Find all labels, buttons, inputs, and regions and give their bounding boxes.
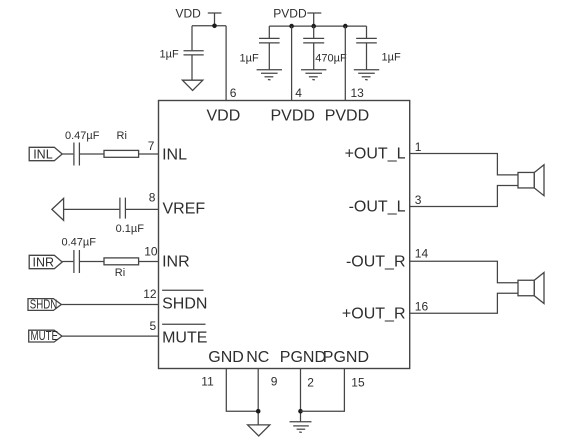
power flag VDD [176, 7, 222, 26]
pin label SHDN (pin 12) with overline [162, 290, 207, 312]
net tag SHDN [28, 298, 61, 312]
capacitor C5 0.47uF (INL input) [74, 143, 80, 166]
svg-text:MUTE: MUTE [162, 329, 207, 346]
capacitor C1 1uF (VDD decoupling) [184, 26, 204, 80]
resistor R1 Ri (INL) [104, 150, 139, 157]
svg-text:-OUT_L: -OUT_L [349, 199, 406, 216]
capacitor C7 0.47uF (INR input) [74, 250, 80, 273]
net tag MUTE [29, 329, 62, 343]
svg-text:VDD: VDD [207, 107, 241, 124]
wire pin 2 (PGND) to ground [300, 369, 302, 422]
wire INR tag to C7 [62, 261, 73, 263]
wire pin 3 (-OUT_L) to speaker LS1 [410, 186, 518, 207]
speaker LS1 (left channel) [518, 165, 544, 196]
pin label VREF (pin 8) [163, 200, 206, 217]
pin label PVDD (pin 13) [325, 107, 369, 124]
pin label +OUT_L (pin 1) [345, 146, 406, 163]
svg-text:0.47µF: 0.47µF [62, 236, 97, 248]
svg-text:SHDN: SHDN [162, 295, 207, 312]
svg-text:6: 6 [230, 86, 237, 100]
svg-text:7: 7 [148, 139, 155, 153]
pin label PGND (pin 2) [280, 349, 326, 366]
pin number 1 [415, 140, 422, 154]
ground (triangle) for C1 [182, 80, 202, 90]
svg-text:1µF: 1µF [382, 52, 401, 64]
net tag INR [29, 255, 62, 269]
svg-text:11: 11 [201, 374, 214, 388]
value label 0.47uF (C7) [62, 236, 97, 248]
pin label -OUT_R (pin 14) [346, 253, 406, 270]
pin number 5 [150, 319, 157, 333]
pin number 3 [415, 193, 422, 207]
pin number 15 [351, 375, 365, 389]
ground (earth) for C2 [257, 70, 282, 80]
svg-text:13: 13 [351, 86, 365, 100]
svg-text:SHDN: SHDN [30, 298, 58, 312]
svg-text:PVDD: PVDD [273, 7, 307, 21]
svg-text:NC: NC [246, 349, 269, 366]
wire pin 13 to PVDD bus [344, 26, 346, 100]
svg-text:INL: INL [162, 146, 187, 163]
node VREF arrow [52, 198, 64, 220]
svg-text:1µF: 1µF [160, 48, 179, 60]
pin number 12 [143, 287, 157, 301]
svg-text:4: 4 [295, 86, 302, 100]
value label 0.47uF (C5) [65, 130, 100, 142]
ground (earth) for C3 [301, 70, 326, 80]
wire C5 to R1 [80, 153, 104, 155]
pin number 14 [415, 247, 429, 261]
resistor R2 Ri (INR) [104, 258, 139, 265]
pin label VDD (pin 6) [207, 107, 241, 124]
svg-text:VREF: VREF [163, 200, 206, 217]
pin label PGND (pin 15) [323, 349, 369, 366]
pin label MUTE (pin 5) with overline [162, 324, 207, 346]
svg-text:1µF: 1µF [240, 53, 259, 65]
wire PVDD bus [269, 25, 366, 27]
svg-text:PVDD: PVDD [271, 107, 315, 124]
value label 1uF (C1) [160, 48, 179, 60]
pin number 6 [230, 86, 237, 100]
junction dot GND node [256, 409, 261, 414]
svg-text:14: 14 [415, 247, 429, 261]
wire R1 to pin 7 [139, 153, 159, 155]
wire pin 15 (PGND) down and over [301, 369, 345, 412]
svg-text:INR: INR [33, 255, 55, 269]
wire SHDN tag to pin 12 [61, 304, 158, 306]
wire INL tag to C5 [62, 153, 73, 155]
wire pin 11 (GND) down and over [226, 369, 258, 412]
svg-text:Ri: Ri [117, 130, 127, 142]
svg-text:15: 15 [351, 375, 365, 389]
value label Ri (R1) [117, 130, 127, 142]
svg-text:PGND: PGND [280, 349, 326, 366]
svg-text:3: 3 [415, 193, 422, 207]
pin label NC (pin 9) [246, 349, 269, 366]
wire VREF arrow to C6 [64, 208, 120, 210]
pin number 7 [148, 139, 155, 153]
speaker LS2 (right channel) [518, 273, 544, 304]
junction dot PVDD at pin 4 [289, 24, 294, 29]
ground (earth) for PGND [290, 422, 312, 433]
wire pin 9 (NC) to ground [257, 369, 259, 425]
svg-text:12: 12 [143, 287, 157, 301]
pin number 16 [415, 300, 429, 314]
capacitor C3 470uF (PVDD bulk) [303, 26, 324, 70]
wire C6 to pin 8 [126, 208, 159, 210]
svg-text:9: 9 [271, 374, 278, 388]
svg-text:+OUT_L: +OUT_L [345, 146, 406, 163]
ground (triangle) for GND/NC [248, 425, 270, 436]
junction dot PVDD at C3 [311, 24, 316, 29]
pin number 8 [149, 191, 156, 205]
wire pin 4 to PVDD bus [291, 26, 293, 100]
svg-text:PGND: PGND [323, 349, 369, 366]
pin label GND (pin 11) [208, 349, 244, 366]
pin number 9 [271, 374, 278, 388]
power flag PVDD [273, 7, 321, 27]
svg-text:2: 2 [307, 375, 314, 389]
pin number 11 [201, 374, 214, 388]
value label 1uF (C4) [382, 52, 401, 64]
value label 1uF (C2) [240, 53, 259, 65]
wire pin 1 (+OUT_L) to speaker LS1 [410, 154, 518, 175]
value label Ri (R2) [115, 267, 125, 279]
svg-text:VDD: VDD [176, 7, 202, 21]
ground (earth) for C4 [354, 70, 379, 80]
wire pin 14 (-OUT_R) to speaker LS2 [410, 261, 518, 283]
capacitor C2 1uF (PVDD left) [259, 26, 280, 70]
svg-text:Ri: Ri [115, 267, 125, 279]
svg-text:INR: INR [162, 254, 190, 271]
svg-text:MUTE: MUTE [31, 329, 59, 343]
pin number 10 [144, 244, 158, 258]
value label 470uF (C3) [315, 53, 347, 65]
svg-text:10: 10 [144, 244, 158, 258]
svg-text:0.1µF: 0.1µF [116, 223, 145, 235]
wire pin 16 (+OUT_R) to speaker LS2 [410, 293, 518, 313]
svg-text:GND: GND [208, 349, 244, 366]
pin label INR (pin 10) [162, 254, 190, 271]
svg-text:+OUT_R: +OUT_R [342, 305, 406, 322]
wire R2 to pin 10 [139, 261, 159, 263]
op-amp IC U1 body [159, 101, 410, 369]
pin number 4 [295, 86, 302, 100]
junction dot PVDD at pin 13 [343, 24, 348, 29]
svg-text:PVDD: PVDD [325, 107, 369, 124]
wire pin 6 to VDD bus [225, 26, 227, 101]
svg-text:8: 8 [149, 191, 156, 205]
pin label INL (pin 7) [162, 146, 187, 163]
svg-text:5: 5 [150, 319, 157, 333]
pin label PVDD (pin 4) [271, 107, 315, 124]
pin number 13 [351, 86, 365, 100]
wire VDD bus [192, 25, 226, 27]
junction dot PGND node [298, 409, 303, 414]
value label 0.1uF (C6) [116, 223, 145, 235]
capacitor C4 1uF (PVDD right) [356, 26, 377, 70]
net tag INL [29, 147, 62, 161]
svg-text:0.47µF: 0.47µF [65, 130, 100, 142]
svg-text:16: 16 [415, 300, 429, 314]
pin number 2 [307, 375, 314, 389]
pin label +OUT_R (pin 16) [342, 305, 406, 322]
wire MUTE tag to pin 5 [62, 335, 159, 337]
pin label -OUT_L (pin 3) [349, 199, 406, 216]
junction dot VDD node [212, 24, 217, 29]
svg-text:1: 1 [415, 140, 422, 154]
svg-text:INL: INL [33, 147, 53, 161]
capacitor C6 0.1uF (VREF bypass) [120, 198, 126, 219]
svg-text:-OUT_R: -OUT_R [346, 253, 406, 270]
svg-text:470µF: 470µF [315, 53, 347, 65]
wire C7 to R2 [80, 261, 104, 263]
